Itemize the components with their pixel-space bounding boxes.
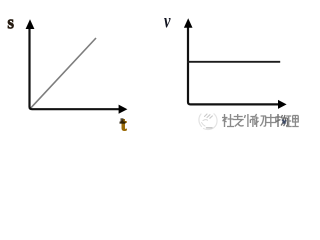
svg-text:t: t: [121, 114, 128, 134]
svg-text:v: v: [164, 11, 171, 33]
svg-text:s: s: [7, 12, 14, 33]
